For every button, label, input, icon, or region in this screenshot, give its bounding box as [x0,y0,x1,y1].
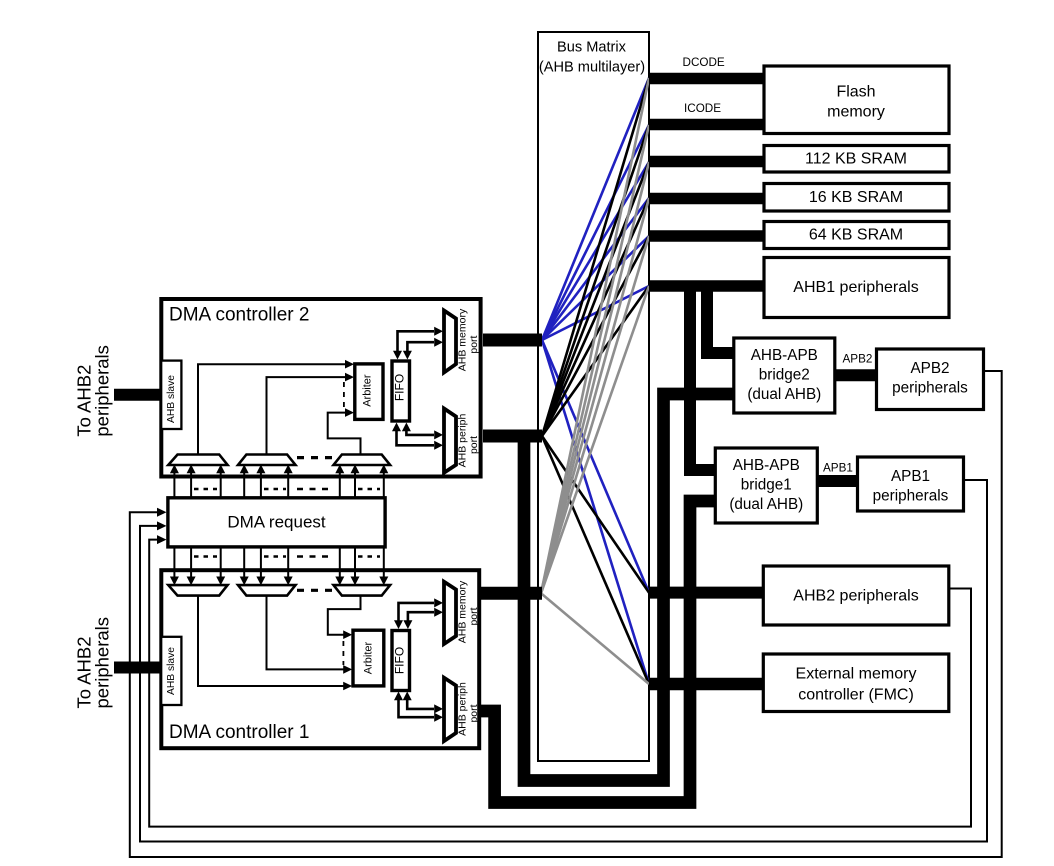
svg-text:External memory: External memory [796,666,917,683]
svg-text:(dual AHB): (dual AHB) [747,386,821,403]
svg-text:AHB memory: AHB memory [457,308,469,371]
svg-text:AHB slave: AHB slave [166,375,177,423]
svg-text:peripherals: peripherals [892,380,968,397]
svg-text:64 KB SRAM: 64 KB SRAM [809,227,903,244]
svg-text:APB2: APB2 [910,360,949,377]
svg-text:16 KB SRAM: 16 KB SRAM [809,189,903,206]
svg-text:FIFO: FIFO [392,374,406,401]
svg-text:memory: memory [827,104,885,121]
svg-text:Arbiter: Arbiter [361,374,373,407]
svg-text:DCODE: DCODE [683,56,725,69]
svg-text:port: port [468,436,480,454]
svg-text:peripherals: peripherals [873,488,949,505]
svg-text:peripherals: peripherals [91,345,112,437]
svg-text:controller (FMC): controller (FMC) [798,687,914,704]
svg-text:(dual AHB): (dual AHB) [729,496,803,513]
svg-text:AHB-APB: AHB-APB [751,347,818,364]
svg-text:Flash: Flash [836,84,875,101]
svg-text:AHB2 peripherals: AHB2 peripherals [793,588,918,605]
svg-text:APB1: APB1 [891,468,930,485]
svg-text:AHB1 peripherals: AHB1 peripherals [793,279,918,296]
svg-text:ICODE: ICODE [684,102,721,115]
svg-text:APB2: APB2 [843,353,873,366]
svg-text:Arbiter: Arbiter [363,641,375,674]
svg-text:AHB slave: AHB slave [166,647,177,695]
svg-text:bridge2: bridge2 [759,367,810,384]
svg-text:DMA request: DMA request [227,513,326,532]
svg-text:AHB periph: AHB periph [457,413,469,467]
svg-text:FIFO: FIFO [392,647,406,674]
svg-text:DMA controller 1: DMA controller 1 [169,722,309,743]
svg-text:APB1: APB1 [823,462,853,475]
svg-text:AHB periph: AHB periph [457,682,469,736]
svg-text:port: port [468,607,480,625]
svg-text:peripherals: peripherals [91,617,112,709]
svg-text:AHB memory: AHB memory [457,580,469,643]
svg-text:(AHB multilayer): (AHB multilayer) [539,60,645,76]
svg-text:DMA controller 2: DMA controller 2 [169,305,309,326]
svg-text:Bus Matrix: Bus Matrix [557,40,627,56]
svg-text:port: port [468,335,480,353]
svg-text:port: port [468,704,480,722]
svg-text:AHB-APB: AHB-APB [733,457,800,474]
svg-text:bridge1: bridge1 [741,477,792,494]
svg-text:112 KB SRAM: 112 KB SRAM [805,151,907,168]
